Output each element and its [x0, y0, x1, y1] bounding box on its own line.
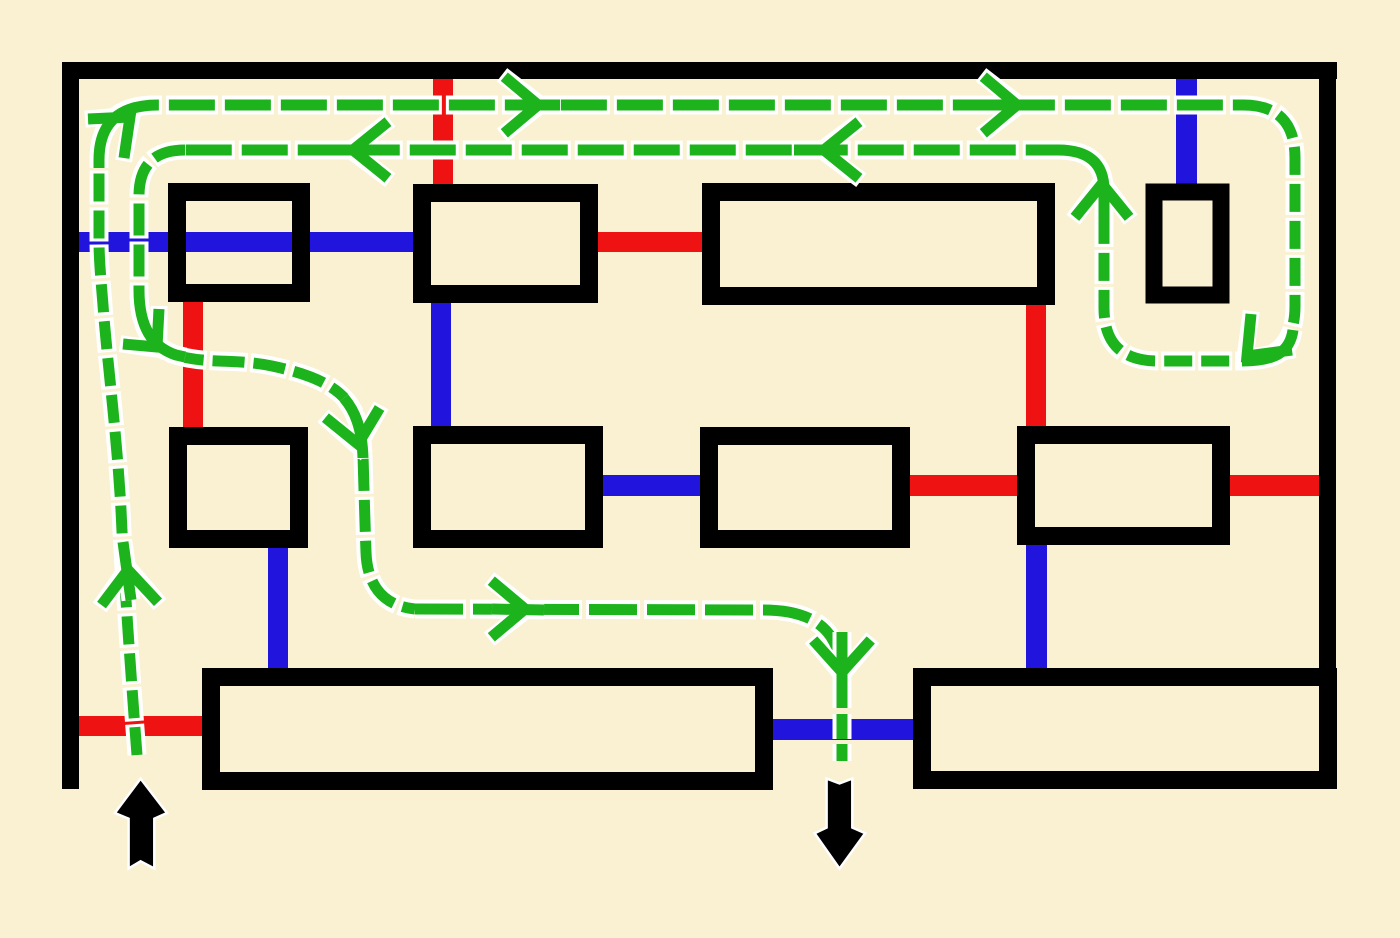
- arrow g5 west L2 left: [353, 122, 388, 179]
- door red R6 room H to right wall: [1222, 475, 1326, 496]
- door red R3 room A to room E: [183, 294, 203, 434]
- solid stub under corridor arrow: [492, 609, 544, 610]
- solid stub under s-curve arrow casing: [344, 398, 363, 458]
- arrow g3 east L1 right casing: [981, 75, 1020, 135]
- solid stub under L2 right arrow casing: [794, 141, 846, 160]
- room H: [1026, 435, 1221, 536]
- solid stub loop bottom corner: [1242, 330, 1293, 361]
- solid stub under L1 right arrow: [987, 100, 1039, 111]
- arrow g7 down-left loop bottom casing: [1245, 311, 1295, 358]
- solid stub under entry arrow casing: [123, 542, 131, 600]
- door red R4 room C to room H: [1026, 296, 1046, 432]
- arrow g0 up entry: [102, 570, 159, 605]
- door blue B3 top wall to room D: [1176, 70, 1197, 190]
- visitor route entry segment white casing: [99, 168, 137, 755]
- room I: [211, 677, 764, 781]
- door blue B1 left wall through room A to room B: [70, 232, 420, 252]
- arrow g5 west L2 left casing: [350, 120, 390, 180]
- solid stub under corridor arrow casing: [492, 609, 544, 610]
- arrow g4 west L2 right casing: [821, 120, 861, 180]
- visitor route inner descent green dashes: [139, 150, 415, 609]
- solid stub inner descent curve: [139, 290, 185, 357]
- visitor route top line 1 green dashes: [99, 105, 1243, 168]
- black exit arrow pointing down: [815, 779, 866, 869]
- visitor route exit tail dash 1: [833, 676, 852, 708]
- visitor route inner descent white casing: [139, 150, 415, 609]
- room C: [711, 192, 1046, 296]
- solid stub under entry arrow: [123, 542, 131, 600]
- wall top: [62, 62, 1337, 79]
- solid stub under L1 left arrow casing: [508, 96, 560, 115]
- solid stub under L2 left arrow casing: [323, 141, 375, 160]
- solid stub under exit arrow: [837, 632, 848, 708]
- arrow g6 up loop left: [1075, 184, 1129, 217]
- solid stub under L2 left arrow: [323, 145, 375, 156]
- solid stub top-left corner: [99, 105, 158, 165]
- visitor route top line 2 white casing: [185, 150, 1104, 190]
- wall left: [62, 62, 79, 789]
- visitor route entry segment green dashes: [99, 168, 137, 755]
- arrow g9 southeast inner descent casing: [120, 306, 159, 349]
- room B: [422, 193, 589, 294]
- arrow g4 west L2 right: [824, 122, 859, 179]
- visitor route exit tail dash 3: [833, 744, 852, 761]
- solid stub under L1 right arrow casing: [987, 96, 1039, 115]
- room D: [1154, 192, 1221, 295]
- solid stub loop left corner casing: [1058, 150, 1104, 220]
- arrow g11 down exit casing: [811, 638, 873, 675]
- visitor route exit tail dash 2: [833, 714, 852, 739]
- visitor route right loop white casing: [1104, 105, 1295, 361]
- door red R7 entrance door bottom left: [70, 716, 210, 736]
- solid stub under L2 right arrow: [794, 145, 846, 156]
- door blue B2 room B to room F: [431, 295, 451, 435]
- arrow g2 east L1 left casing: [502, 75, 541, 135]
- solid stub inner descent curve casing: [139, 290, 185, 357]
- arrow g1 northeast top-left corner: [88, 117, 130, 158]
- arrow g10 east corridor: [491, 581, 525, 638]
- door blue B4 room F to room G: [596, 475, 708, 496]
- door blue B7 exit door room I to room J: [766, 719, 918, 740]
- wall right: [1319, 62, 1336, 789]
- solid stub under s-curve arrow: [344, 398, 363, 458]
- arrow g8 down s-curve casing: [323, 405, 381, 447]
- visitor route right loop green dashes: [1104, 105, 1295, 361]
- visitor route top line 1 white casing: [99, 105, 1243, 168]
- visitor route corridor white casing: [415, 609, 842, 672]
- solid stub under exit arrow casing: [833, 632, 852, 708]
- door blue B5 room E to room I: [268, 540, 288, 676]
- solid stub top-left corner casing: [99, 105, 158, 165]
- solid stub under L1 left arrow: [508, 100, 560, 111]
- arrow g8 down s-curve: [325, 408, 379, 444]
- room J: [922, 677, 1328, 780]
- arrow g6 up loop left casing: [1073, 181, 1131, 220]
- solid stub loop left corner: [1058, 150, 1104, 220]
- room G: [709, 436, 901, 539]
- door red R1 top wall to room B: [433, 70, 453, 190]
- arrow g1 northeast top-left corner casing: [85, 115, 132, 161]
- room A: [177, 192, 301, 293]
- room E: [178, 436, 299, 539]
- door red R5 room G to room H: [903, 475, 1023, 496]
- room F: [422, 435, 594, 539]
- arrow g9 southeast inner descent: [123, 309, 159, 347]
- visitor route top line 2 green dashes: [185, 150, 1104, 190]
- black entrance arrow pointing up: [115, 779, 167, 869]
- arrow g7 down-left loop bottom: [1247, 314, 1292, 356]
- arrow g0 up entry casing: [100, 567, 160, 608]
- solid stub loop bottom corner casing: [1242, 330, 1293, 361]
- door red R2 room B to room C: [590, 232, 710, 252]
- arrow g2 east L1 left: [504, 77, 538, 134]
- door blue B6 room H to room J: [1026, 538, 1047, 676]
- arrow g3 east L1 right: [983, 77, 1017, 134]
- arrow g10 east corridor casing: [489, 579, 528, 639]
- visitor route corridor green dashes: [415, 609, 842, 672]
- arrow g11 down exit: [813, 640, 871, 672]
